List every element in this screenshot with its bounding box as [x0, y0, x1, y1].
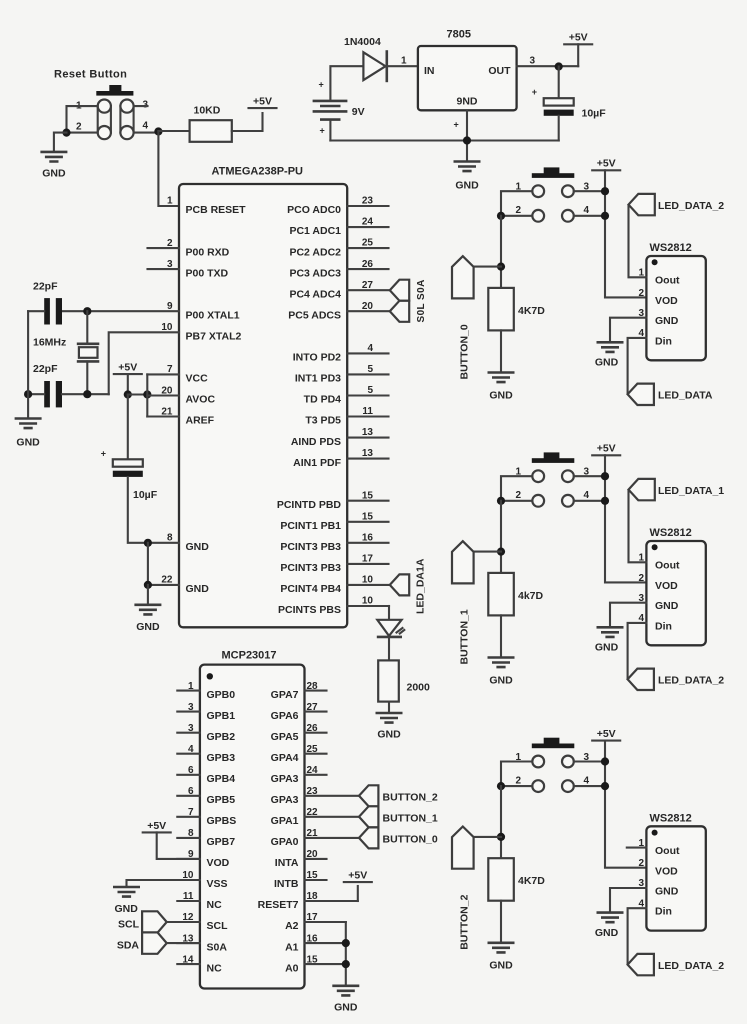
svg-text:PC1 ADC1: PC1 ADC1: [289, 225, 341, 237]
wire LED to resistor R5: [388, 638, 390, 661]
wire U1 pin 13 stub: [347, 458, 388, 460]
wire crystal vertical: [86, 311, 88, 394]
svg-text:PCINT1 PB1: PCINT1 PB1: [280, 520, 341, 532]
connector tag BUTTON_1 on U3: [359, 806, 378, 827]
junction pin3 +5V block 1: [601, 472, 609, 480]
wire C1 left: [28, 310, 44, 312]
svg-text:7805: 7805: [447, 29, 471, 41]
wire WS2812 GND block 2: [610, 888, 646, 912]
wire button pin2 block 1: [501, 500, 532, 502]
svg-text:LED_DA1A: LED_DA1A: [415, 558, 427, 614]
wire PB5 down to LED: [388, 606, 390, 620]
wire battery- down to bottom rail: [329, 121, 331, 141]
LED driver WS2812 block 0: [646, 242, 705, 360]
junction button pins 1-2 block 1: [497, 497, 505, 505]
svg-text:GND: GND: [595, 357, 619, 369]
svg-text:10µF: 10µF: [133, 489, 158, 501]
junction left cap rail: [24, 390, 32, 398]
svg-text:PC4 ADC4: PC4 ADC4: [289, 288, 341, 300]
svg-text:PCINTS PBS: PCINTS PBS: [278, 604, 341, 616]
wire +5V down to VCC node: [127, 374, 129, 394]
svg-text:PCINT3 PB3: PCINT3 PB3: [280, 562, 341, 574]
svg-text:2: 2: [638, 858, 644, 869]
svg-text:A2: A2: [285, 920, 299, 932]
wire U1 pin 4 stub: [347, 352, 388, 354]
svg-text:VOD: VOD: [207, 857, 230, 869]
wire reset node to MCU pin 1: [158, 132, 179, 207]
svg-text:2000: 2000: [407, 682, 431, 694]
connector tag SCL on U1 pin 27: [390, 280, 409, 301]
U3 left pin 7 GPBS: [177, 807, 236, 827]
WS2812 block 2 pin 1 Oout: [638, 838, 680, 857]
junction crystal bottom: [83, 390, 91, 398]
U3 left pin 11 NC: [177, 891, 222, 911]
wire resistor to ground block 0: [500, 330, 502, 371]
svg-text:+5V: +5V: [597, 443, 616, 455]
connector tag LED_DATA_2: [629, 194, 655, 215]
svg-text:AREF: AREF: [186, 415, 215, 427]
wire U1 pin 10 stub: [347, 605, 389, 607]
svg-text:BUTTON_1: BUTTON_1: [383, 812, 438, 824]
svg-text:GPB0: GPB0: [207, 689, 236, 701]
svg-text:AIN1 PDF: AIN1 PDF: [293, 457, 341, 469]
+5V supply block 1: [592, 443, 620, 456]
svg-text:SCL: SCL: [118, 918, 140, 930]
U3 left pin 14 NC: [177, 954, 222, 974]
wire resistor to ground block 1: [500, 615, 502, 656]
connector tag SDA on U1 pin 28: [390, 301, 409, 322]
capacitor C3 10uF: [532, 87, 574, 116]
svg-text:GPA7: GPA7: [271, 689, 299, 701]
junction reset pins 1-2: [62, 129, 70, 137]
U3 right pin 15 A0: [285, 954, 346, 974]
svg-text:GPA4: GPA4: [271, 752, 299, 764]
U3 left pin 10 VSS: [177, 870, 227, 890]
capacitor C4 10uF: [101, 448, 143, 477]
wire button pin3 block 2: [574, 760, 605, 762]
wire U1 pin 10 stub: [347, 584, 390, 586]
svg-text:10KD: 10KD: [194, 105, 221, 117]
resistor R1 10K: [190, 105, 232, 142]
svg-text:+5V: +5V: [348, 870, 367, 882]
wire C4 to GND pin 8: [128, 477, 179, 543]
svg-text:4K7D: 4K7D: [518, 875, 545, 887]
connector tag LED_DATA_1: [629, 479, 655, 500]
wire +5V node down to C4: [127, 395, 129, 460]
wire U1 pin 16 stub: [347, 542, 388, 544]
svg-text:LED_DATA: LED_DATA: [658, 390, 713, 402]
connector tag LED_DATA: [628, 384, 654, 405]
wire +5V rail block 0: [605, 170, 646, 297]
svg-text:INTA: INTA: [275, 857, 299, 869]
wire resistor to ground block 2: [500, 901, 502, 942]
IO expander U3 MCP23017 body: [200, 665, 305, 989]
svg-text:S0L S0A: S0L S0A: [416, 279, 427, 322]
push button SW_BUTTON_1: [532, 452, 575, 506]
svg-text:+: +: [101, 448, 106, 458]
U3 right pin 17 A2: [285, 912, 346, 932]
svg-text:Oout: Oout: [655, 560, 680, 572]
svg-text:4: 4: [584, 776, 590, 787]
svg-text:GND: GND: [186, 583, 210, 595]
WS2812 block 0 pin 4 Din: [638, 328, 671, 347]
svg-text:22pF: 22pF: [33, 281, 58, 293]
svg-text:1N4004: 1N4004: [344, 36, 381, 48]
svg-text:VOD: VOD: [655, 865, 678, 877]
wire Dout to LED_DATA_1 block 1: [629, 491, 647, 563]
svg-text:GPB5: GPB5: [207, 794, 236, 806]
svg-text:3: 3: [530, 56, 536, 67]
svg-text:1: 1: [167, 196, 173, 207]
svg-text:2: 2: [638, 288, 644, 299]
diode D1 1N4004: [344, 36, 387, 82]
wire down to ground symbol: [147, 585, 149, 604]
svg-text:WS2812: WS2812: [650, 527, 692, 539]
svg-text:+5V: +5V: [253, 96, 272, 108]
U3 right pin 25 GPA4: [271, 744, 327, 764]
svg-text:4k7D: 4k7D: [518, 590, 544, 602]
svg-text:2: 2: [638, 573, 644, 584]
junction pin4 +5V block 1: [601, 497, 609, 505]
svg-text:LED_DATA_1: LED_DATA_1: [658, 485, 724, 497]
svg-text:+5V: +5V: [597, 158, 616, 170]
svg-text:VSS: VSS: [207, 878, 228, 890]
svg-text:IN: IN: [424, 65, 435, 77]
U3 right pin 27 GPA6: [271, 702, 327, 722]
wire to VCC bus: [128, 393, 148, 395]
svg-text:INTB: INTB: [274, 878, 299, 890]
svg-text:3: 3: [143, 100, 149, 111]
wire Din to LED_DATA block 0: [628, 338, 647, 394]
svg-text:GND: GND: [455, 180, 479, 192]
pin1 index dot of U3: [207, 673, 213, 679]
svg-text:TD PD4: TD PD4: [304, 394, 342, 406]
wire RESET pin to +5V: [357, 886, 359, 901]
wire U1 pin 5 stub: [347, 394, 388, 396]
wire U1 pin 25 stub: [347, 247, 388, 249]
U3 right pin 28 GPA7: [271, 681, 327, 701]
wire to AREF pin 21: [147, 415, 179, 417]
wire button pin1 block 1: [501, 476, 532, 501]
wire U1 pin2 stub RXD: [148, 247, 180, 249]
junction A1: [342, 939, 350, 947]
svg-text:4: 4: [584, 205, 590, 216]
junction GND pin22: [144, 581, 152, 589]
WS2812 block 2 pin 4 Din: [638, 898, 671, 917]
svg-text:PCINT4 PB4: PCINT4 PB4: [280, 583, 341, 595]
svg-text:P00 TXD: P00 TXD: [186, 267, 229, 279]
WS2812 block 2 pin 2 VOD: [638, 858, 678, 877]
wire battery+ to diode anode: [330, 66, 363, 99]
crystal Y1 16MHz: [33, 337, 99, 362]
svg-text:SCL: SCL: [207, 920, 229, 932]
U3 right pin 22 GPA1: [271, 807, 359, 827]
wire U1 pin 24 stub: [347, 226, 388, 228]
svg-text:INTO PD2: INTO PD2: [293, 352, 341, 364]
resistor R5 2000: [378, 660, 430, 701]
svg-text:GND: GND: [377, 729, 401, 741]
wire +5V to U3 VDD: [157, 832, 200, 859]
svg-text:MCP23017: MCP23017: [222, 650, 277, 662]
WS2812 block 0 pin 1 Oout: [638, 268, 680, 287]
wire button to resistor block 2: [500, 786, 502, 858]
svg-text:+: +: [532, 87, 537, 97]
wire to AVCC pin 20: [147, 394, 179, 396]
wire button pin4 block 0: [574, 215, 605, 217]
ground symbol BUTTON_2 pulldown: [488, 943, 515, 953]
ground symbol power supply: [454, 162, 481, 172]
capacitor C1 22pF: [33, 281, 62, 325]
svg-text:16MHz: 16MHz: [33, 337, 66, 349]
svg-text:VCC: VCC: [186, 373, 209, 385]
+5V supply at VCC: [114, 362, 142, 375]
svg-text:GPA0: GPA0: [271, 836, 299, 848]
svg-text:+5V: +5V: [597, 728, 616, 740]
wire C2 left: [28, 393, 44, 395]
svg-text:P00 XTAL1: P00 XTAL1: [186, 309, 240, 321]
svg-text:GPA3: GPA3: [271, 794, 299, 806]
wire SCL tag to pin 12: [167, 921, 200, 923]
junction VCC bus: [143, 390, 151, 398]
svg-text:PCINT3 PB3: PCINT3 PB3: [280, 541, 341, 553]
wire WS2812 GND block 1: [610, 603, 646, 627]
ground symbol WS2812 block 2: [597, 913, 624, 923]
svg-text:PC3 ADC3: PC3 ADC3: [289, 267, 341, 279]
wire bottom supply rail: [330, 139, 558, 141]
svg-text:4K7D: 4K7D: [518, 305, 545, 317]
wire button pin3 block 0: [574, 190, 605, 192]
wire to GND pin 22: [148, 543, 179, 585]
junction bottom rail / regulator GND: [463, 136, 471, 144]
voltage regulator U2 7805: [418, 29, 517, 111]
svg-text:PC2 ADC2: PC2 ADC2: [289, 246, 341, 258]
svg-text:T3 PD5: T3 PD5: [305, 415, 341, 427]
ground symbol LED resistor: [376, 713, 403, 723]
U3 left pin 12 SCL: [177, 912, 228, 932]
+5V supply at U3 VDD: [143, 820, 171, 833]
svg-text:NC: NC: [207, 899, 223, 911]
+5V supply at regulator output: [564, 32, 592, 45]
svg-text:PB7 XTAL2: PB7 XTAL2: [186, 331, 242, 343]
wire U1 pin 27 stub: [347, 289, 390, 291]
U3 right pin 23 GPA3: [271, 786, 359, 806]
svg-text:LED_DATA_2: LED_DATA_2: [658, 960, 724, 972]
+5V supply at reset pull-up: [249, 96, 277, 109]
connector tag BUTTON_2: [452, 827, 474, 869]
connector tag LED_DATA on U1 pin PB4: [390, 574, 409, 595]
svg-text:PC5 ADCS: PC5 ADCS: [288, 309, 341, 321]
connector tag LED_DATA_2: [628, 669, 654, 690]
LED D2: [377, 620, 405, 637]
wire U3 VSS to ground: [127, 880, 200, 886]
ground symbol reset button: [40, 152, 67, 162]
svg-text:2: 2: [515, 776, 521, 787]
svg-text:Din: Din: [655, 906, 672, 918]
svg-text:BUTTON_2: BUTTON_2: [383, 791, 438, 803]
+5V supply at U3 RESET: [344, 870, 372, 883]
wire C2 right to XTAL2: [62, 393, 109, 395]
WS2812 block 2 pin 3 GND: [638, 878, 678, 897]
wire A2-A1-A0 bus to ground: [345, 922, 347, 985]
wire U1 pin 15 stub: [347, 500, 388, 502]
LED driver WS2812 block 1: [646, 527, 705, 645]
junction BUTTON_0 node: [497, 263, 505, 271]
wire Din to LED_DATA_2 block 1: [628, 623, 647, 679]
capacitor C2 22pF: [33, 363, 62, 407]
WS2812 block 0 pin 3 GND: [638, 308, 678, 327]
svg-text:+: +: [320, 126, 325, 136]
wire button to resistor block 1: [500, 501, 502, 573]
junction BUTTON_2 node: [497, 833, 505, 841]
wire to BUTTON_2 tag: [463, 836, 501, 838]
push button SW_Reset: [96, 85, 133, 139]
ground symbol WS2812 block 1: [597, 627, 624, 637]
wire Dout to LED_DATA_2 block 0: [629, 206, 647, 278]
svg-text:22pF: 22pF: [33, 363, 58, 375]
svg-text:9V: 9V: [352, 106, 365, 118]
wire XTAL1 net: [62, 310, 179, 312]
connector tag LED_DATA_2: [628, 954, 654, 975]
connector tag BUTTON_1: [452, 541, 474, 583]
svg-text:S0A: S0A: [207, 941, 228, 953]
junction button pins 1-2 block 0: [497, 212, 505, 220]
U3 left pin 6 GPB4: [177, 765, 235, 785]
connector tag BUTTON_0: [452, 256, 474, 298]
wire U1 pin3 stub TXD: [148, 268, 180, 270]
svg-text:GPBS: GPBS: [207, 815, 237, 827]
wire left cap rail: [27, 311, 29, 417]
U3 left pin 3 GPB2: [177, 723, 235, 743]
svg-text:BUTTON_0: BUTTON_0: [458, 324, 470, 379]
svg-text:OUT: OUT: [488, 65, 511, 77]
svg-text:10µF: 10µF: [582, 108, 607, 120]
wire U1 pin 13 stub: [347, 437, 388, 439]
WS2812 block 1 pin 3 GND: [638, 593, 678, 612]
junction A0: [342, 960, 350, 968]
svg-text:4: 4: [584, 490, 590, 501]
svg-text:A1: A1: [285, 941, 299, 953]
wire R5 to ground: [388, 702, 390, 712]
resistor R_BUTTON_2 4K7: [488, 858, 545, 901]
junction XTAL1 / crystal: [83, 307, 91, 315]
+5V supply block 0: [592, 158, 620, 171]
U3 right pin 20 INTA: [275, 849, 327, 869]
svg-text:Oout: Oout: [655, 275, 680, 287]
svg-text:9ND: 9ND: [456, 96, 477, 108]
junction pin3 +5V block 0: [601, 187, 609, 195]
junction pin4 +5V block 0: [601, 212, 609, 220]
push button SW_BUTTON_2: [532, 738, 575, 792]
svg-text:GND: GND: [186, 541, 210, 553]
ground symbol WS2812 block 0: [597, 342, 624, 352]
WS2812 block 1 pin 4 Din: [638, 613, 671, 632]
wire +5V rail block 2: [605, 741, 646, 868]
wire reset pin1 down: [67, 106, 98, 133]
ground symbol U3 address pins: [332, 986, 359, 996]
wire U1 pin 23 stub: [347, 205, 388, 207]
svg-text:Din: Din: [655, 620, 672, 632]
svg-text:2: 2: [515, 205, 521, 216]
wire U1 pin 11 stub: [347, 415, 388, 417]
U3 right pin 26 GPA5: [271, 723, 327, 743]
junction pin4 +5V block 2: [601, 782, 609, 790]
wire Din to LED_DATA_2 block 2: [628, 908, 647, 964]
wire U1 pin 17 stub: [347, 563, 388, 565]
connector tag SDA into U3 pin 13: [142, 932, 167, 953]
wire to VCC pin 7: [147, 373, 179, 375]
wire button pin2 block 2: [501, 785, 532, 787]
svg-text:GPB7: GPB7: [207, 836, 236, 848]
junction pin3 +5V block 2: [601, 757, 609, 765]
+5V supply block 2: [592, 728, 620, 741]
wire reset pin2: [67, 132, 98, 134]
connector tag BUTTON_0 on U3: [359, 827, 378, 848]
svg-text:2: 2: [76, 122, 82, 133]
svg-text:BUTTON_0: BUTTON_0: [383, 834, 438, 846]
svg-text:27: 27: [362, 280, 374, 291]
svg-text:2: 2: [515, 490, 521, 501]
svg-text:GPB2: GPB2: [207, 731, 236, 743]
wire button pin4 block 1: [574, 500, 605, 502]
wire XTAL2 net: [109, 332, 179, 394]
svg-text:+5V: +5V: [147, 820, 166, 832]
wire to capacitor C3: [558, 67, 560, 99]
svg-text:GPB1: GPB1: [207, 710, 236, 722]
svg-text:GND: GND: [595, 927, 619, 939]
U3 right pin 21 GPA0: [271, 828, 359, 848]
svg-text:GND: GND: [655, 600, 679, 612]
WS2812 block 1 pin 2 VOD: [638, 573, 678, 592]
wire Dout stub block 2: [627, 847, 647, 849]
junction +5V / C4: [124, 390, 132, 398]
svg-text:INT1 PD3: INT1 PD3: [295, 373, 341, 385]
svg-text:GND: GND: [136, 621, 160, 633]
U3 left pin 8 GPB7: [177, 828, 235, 848]
junction GND pin8 branch: [144, 539, 152, 547]
U3 right pin 16 A1: [285, 933, 346, 953]
svg-text:1: 1: [401, 56, 407, 67]
wire +5V rail block 1: [605, 455, 646, 582]
U3 right pin 15 INTB: [274, 870, 327, 890]
U3 left pin 4 GPB3: [177, 744, 235, 764]
svg-text:GND: GND: [489, 960, 513, 972]
svg-text:GND: GND: [489, 674, 513, 686]
svg-text:WS2812: WS2812: [650, 812, 692, 824]
resistor R_BUTTON_0 4K7: [488, 288, 545, 331]
svg-text:Reset Button: Reset Button: [54, 69, 127, 81]
ground symbol BUTTON_0 pulldown: [488, 373, 515, 383]
svg-text:GPB3: GPB3: [207, 752, 236, 764]
wire to BUTTON_0 tag: [463, 266, 501, 268]
svg-text:SDA: SDA: [117, 939, 140, 951]
wire button to resistor block 0: [500, 216, 502, 288]
connector tag BUTTON_2 on U3: [359, 785, 378, 806]
svg-text:+5V: +5V: [118, 362, 137, 374]
svg-text:VOD: VOD: [655, 580, 678, 592]
junction button pins 1-2 block 2: [497, 782, 505, 790]
svg-text:A0: A0: [285, 962, 299, 974]
svg-text:15: 15: [362, 490, 374, 501]
wire resistor R1 to +5V: [232, 113, 263, 131]
svg-text:GND: GND: [655, 885, 679, 897]
U3 left pin 13 S0A: [177, 933, 227, 953]
svg-text:BUTTON_1: BUTTON_1: [458, 609, 470, 664]
wire U1 pin 20 stub: [347, 310, 390, 312]
svg-text:ATMEGA238P-PU: ATMEGA238P-PU: [212, 166, 304, 178]
svg-text:P00 RXD: P00 RXD: [186, 246, 230, 258]
svg-text:AIND PDS: AIND PDS: [291, 436, 341, 448]
ground symbol U3 VSS: [113, 887, 140, 897]
